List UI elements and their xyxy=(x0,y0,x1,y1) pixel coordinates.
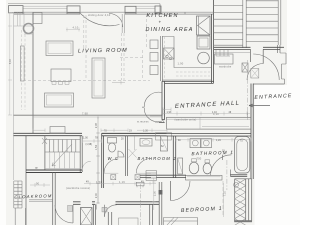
living room south wall xyxy=(14,114,163,116)
stair arrow xyxy=(52,144,72,166)
kitchen living divider wall xyxy=(161,36,163,81)
bedside shelf xyxy=(136,182,144,186)
svg-text:DINING AREA: DINING AREA xyxy=(146,27,194,33)
entrance outer wall xyxy=(253,45,284,84)
left inner wall xyxy=(32,12,34,133)
hatched wall strip east xyxy=(235,179,246,222)
WC top wall xyxy=(102,133,167,135)
hall closet top xyxy=(214,52,250,54)
entry door leaf right xyxy=(262,49,264,63)
svg-text:(wardrobe recess): (wardrobe recess) xyxy=(66,186,90,190)
WC corner sink xyxy=(118,151,124,157)
hall closet band xyxy=(167,117,252,129)
corridor door arc 1 xyxy=(55,205,73,223)
shelf boxes on kitchen wall xyxy=(150,40,158,49)
dim row above closet xyxy=(163,112,250,116)
stair shaft right wall xyxy=(80,136,82,172)
stair bottom wall xyxy=(214,47,284,49)
svg-text:W.C: W.C xyxy=(108,156,120,161)
entry door leaf xyxy=(250,49,252,62)
duct cross between WC and bath2 xyxy=(129,136,137,158)
svg-text:(1,98): (1,98) xyxy=(86,144,93,146)
dim segment below dashed line xyxy=(112,81,125,85)
bathroom2 washbasin xyxy=(140,139,152,147)
svg-text:1,26: 1,26 xyxy=(216,140,221,142)
wall junction box xyxy=(159,190,163,195)
svg-text:1,10: 1,10 xyxy=(212,112,217,114)
stair bottom wall xyxy=(26,170,82,173)
kitchen counter inner dashes xyxy=(176,72,210,76)
bedroom door arc xyxy=(171,181,191,201)
bed bedroom2 partial xyxy=(119,218,139,228)
sofa right vertical xyxy=(92,58,105,98)
chimney rect above stairs xyxy=(50,127,65,134)
svg-text:LIVING ROOM: LIVING ROOM xyxy=(78,48,128,55)
tub wall bottom xyxy=(230,175,247,177)
basin 2 xyxy=(203,163,211,174)
svg-text:sliding door 4,10: sliding door 4,10 xyxy=(88,13,111,17)
threshold hatch box door 2 xyxy=(102,207,107,212)
column X near entrance xyxy=(242,63,248,72)
svg-text:KITCHEN: KITCHEN xyxy=(147,13,179,19)
svg-text:+: + xyxy=(159,20,163,25)
dim marks above cloakroom xyxy=(30,183,50,187)
balcony door quarter arc xyxy=(109,13,123,27)
svg-text:1,19: 1,19 xyxy=(119,180,125,184)
wall pier near kitchen xyxy=(155,6,161,13)
sofa bottom xyxy=(45,93,74,107)
wall pier right of balcony door xyxy=(125,6,136,13)
sink unit with X xyxy=(164,48,175,59)
extra dim ticks xyxy=(33,108,251,218)
hall east wall xyxy=(251,84,253,180)
entry door arc small xyxy=(247,64,264,81)
toilet xyxy=(108,138,117,144)
oven unit xyxy=(197,36,210,49)
svg-text:1,00: 1,00 xyxy=(83,138,88,140)
stairwell left flight treads xyxy=(214,6,243,46)
kitchen south wall xyxy=(162,81,214,83)
kitchen round table xyxy=(198,52,210,64)
WC left wall xyxy=(102,133,104,188)
radiator left wall xyxy=(21,46,25,81)
kitchen east wall (stair side) xyxy=(212,0,214,83)
tall unit fridge triangle xyxy=(197,16,211,35)
WC right wall xyxy=(126,136,128,176)
plant circle top-left xyxy=(24,24,34,34)
bathroom1 top wall xyxy=(167,134,252,136)
mirror cabinets xyxy=(190,139,201,148)
balcony dim line xyxy=(66,28,80,32)
svg-text:7,10: 7,10 xyxy=(225,191,227,196)
bedroom door leaf xyxy=(170,181,172,201)
stair shaft left wall xyxy=(44,136,46,170)
stair exit door arc xyxy=(82,161,91,170)
hall west wall end cap xyxy=(162,120,165,123)
white margin right of lower wing xyxy=(255,85,301,225)
cabinet row bath2 top xyxy=(156,133,172,140)
stairwell right wall xyxy=(278,0,281,45)
stairwell right flight treads xyxy=(246,1,278,42)
bedroom west wall xyxy=(159,182,162,225)
wall stub below right pier xyxy=(122,14,124,33)
door jamb line xyxy=(96,204,98,209)
svg-text:90: 90 xyxy=(36,181,40,185)
dimension line 7,98 xyxy=(33,115,162,119)
window jamb ticks top wall xyxy=(23,4,185,15)
svg-text:2,00: 2,00 xyxy=(155,191,157,196)
threshold X box bath2 xyxy=(135,175,140,180)
kitchen counter L xyxy=(162,37,211,81)
wall pier top-left xyxy=(9,6,24,13)
dashed dim bedroom right xyxy=(222,181,224,215)
corridor wall stub xyxy=(73,202,81,205)
radiator ladder left xyxy=(14,181,22,208)
knob circle xyxy=(234,182,239,187)
dash section line bath door xyxy=(226,160,228,190)
dashed counter line xyxy=(164,37,166,81)
balcony outer edge line xyxy=(8,3,160,5)
tub xyxy=(235,137,250,174)
balcony sliding door arc wide xyxy=(81,14,120,26)
svg-text:1,90: 1,90 xyxy=(178,62,184,66)
top wall inner lines xyxy=(14,11,213,13)
landing steps xyxy=(216,49,230,56)
WC door arc xyxy=(104,159,118,173)
threshold X box WC xyxy=(111,175,116,180)
living room dashed vertical lines xyxy=(84,14,147,80)
tiny dimension numbers scattered xyxy=(10,59,243,198)
corridor south wall xyxy=(92,202,159,205)
wall pair below corridor xyxy=(94,204,112,225)
stair treads upper run xyxy=(45,140,80,153)
corridor left wall lower xyxy=(25,136,27,225)
bed bedroom1 xyxy=(164,218,198,226)
hall wardrobe box xyxy=(215,54,234,64)
bench below basins xyxy=(186,175,223,180)
corridor corner wall down xyxy=(150,204,153,225)
threshold hatch box door 1 xyxy=(68,206,73,212)
window jambs left wall xyxy=(14,12,34,26)
living room dashed ceiling line horizontal xyxy=(23,80,150,82)
hatched strip outer lines xyxy=(235,179,252,222)
entrance arrow xyxy=(249,104,270,107)
cloakroom bottom wall xyxy=(29,200,53,202)
balcony railing lines xyxy=(23,6,155,8)
corridor door arc 2 xyxy=(104,205,106,217)
bathroom2 door arc xyxy=(136,159,151,174)
sideboard xyxy=(46,41,73,56)
svg-text:700: 700 xyxy=(197,157,202,161)
closet right section xyxy=(246,112,248,117)
bath1 door arc xyxy=(211,155,232,176)
wall bath2 bath1 xyxy=(173,136,175,178)
svg-text:wardrobe: wardrobe xyxy=(219,65,232,69)
dim row corridor xyxy=(84,182,156,186)
dash section line bottom xyxy=(139,184,141,225)
svg-text:4,10: 4,10 xyxy=(73,26,79,30)
svg-text:(wardrobe units): (wardrobe units) xyxy=(175,118,197,122)
entry big swing arc xyxy=(253,54,279,80)
svg-text:1,93: 1,93 xyxy=(167,112,172,114)
svg-text:3,10: 3,10 xyxy=(10,59,12,64)
svg-text:7,98: 7,98 xyxy=(82,112,88,116)
shower unit bathroom2 xyxy=(160,136,167,151)
steps hall to bedroom corridor xyxy=(146,171,157,181)
wardrobe box with X xyxy=(81,208,93,226)
bathroom1 south wall xyxy=(151,175,186,177)
stair treads lower run xyxy=(45,152,80,169)
cabinet top-left corner xyxy=(33,13,42,24)
dimension line far left xyxy=(8,13,12,115)
svg-text:1,54: 1,54 xyxy=(96,180,102,184)
right wall steps xyxy=(280,53,286,84)
living room double door arcs xyxy=(144,92,162,107)
svg-text:w.recess: w.recess xyxy=(137,120,149,124)
cloakroom right wall xyxy=(53,173,56,226)
section dash line entrance xyxy=(247,60,249,120)
svg-text:1,30: 1,30 xyxy=(143,131,148,133)
basin 1 xyxy=(189,162,199,174)
hall west wall xyxy=(159,81,165,122)
left outer wall face xyxy=(13,12,15,180)
dashed overhead lines left xyxy=(22,30,26,110)
dim vertical x98 xyxy=(96,117,100,203)
stair cross mark xyxy=(42,138,47,144)
door mat X xyxy=(251,69,259,79)
stairwell divider xyxy=(243,0,246,48)
wall pier top-middle xyxy=(67,6,80,13)
svg-text:2,08: 2,08 xyxy=(96,123,98,128)
laundry cabinet xyxy=(178,158,183,174)
stair shaft top wall xyxy=(14,133,83,135)
coffee table xyxy=(51,69,71,82)
left wall below xyxy=(15,208,25,225)
bedroom north wall segs xyxy=(140,175,151,177)
